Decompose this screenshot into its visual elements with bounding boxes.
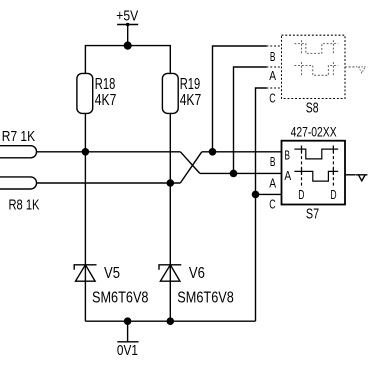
node S8-A junction (230, 170, 238, 178)
wire S8 pin A dashed stub (267, 66, 282, 68)
resistor R19 (162, 73, 201, 113)
svg-text:S7: S7 (306, 207, 319, 223)
wire node down to V5 and rail (84, 152, 86, 321)
wire lower line to S7 pin A (200, 172, 282, 174)
S7 labels (269, 148, 336, 223)
wire S8 pin B dashed stub (267, 45, 282, 47)
zener diode V5 (74, 265, 148, 307)
svg-text:427-02XX: 427-02XX (291, 124, 337, 140)
connector S8 (dashed) (282, 35, 368, 98)
S7 internal waveform B (294, 149, 338, 159)
wire crossover diagonal R7 to lower (180, 152, 199, 174)
svg-text:A: A (269, 68, 276, 83)
wire S8 pin C dashed stub (267, 87, 282, 89)
svg-text:R8 1K: R8 1K (9, 197, 40, 214)
svg-text:D: D (330, 187, 336, 202)
S7 internal detent dashed lines (301, 146, 303, 189)
svg-text:S8: S8 (306, 100, 319, 116)
node 0V1 tap (124, 317, 132, 325)
wire +5V tap (127, 25, 129, 46)
S8 detent marks (302, 40, 334, 76)
S7 internal waveform A (294, 171, 338, 181)
svg-text:A: A (269, 176, 276, 191)
svg-text:4K7: 4K7 (95, 92, 117, 109)
svg-text:V6: V6 (189, 265, 205, 282)
node R18/R7/V5 (82, 148, 90, 156)
node S8-C / S7-C junction (252, 191, 260, 199)
resistor R8 (0, 177, 40, 214)
svg-text:R7 1K: R7 1K (2, 128, 35, 145)
svg-text:SM6T6V8: SM6T6V8 (92, 290, 149, 307)
connector S7 box (282, 141, 346, 205)
svg-text:A: A (284, 168, 291, 183)
wire C net down to 0V rail (255, 194, 257, 321)
svg-text:0V1: 0V1 (117, 342, 138, 359)
S7 detent tick marks (302, 146, 334, 175)
svg-text:+5V: +5V (116, 7, 138, 24)
svg-text:B: B (284, 148, 290, 163)
wire S8 pin B (213, 46, 267, 152)
svg-text:C: C (269, 90, 275, 105)
svg-text:4K7: 4K7 (180, 92, 202, 109)
wire S7 common stub (345, 174, 356, 176)
resistor R7 (0, 128, 37, 158)
wire crossover diagonal R8 to upper (180, 152, 202, 183)
0V1 rail symbol (117, 321, 139, 359)
svg-text:V5: V5 (104, 265, 120, 282)
wire S8 pin C (256, 88, 267, 194)
node V6 rail junction (167, 317, 175, 325)
zener diode V6 (159, 265, 234, 307)
wire S8 pin A (234, 67, 267, 173)
svg-text:R19: R19 (180, 76, 201, 93)
S8 internal waveform A (294, 66, 338, 76)
S8 internal waveform B (294, 40, 338, 76)
wire R18 bottom to node (84, 113, 86, 151)
wire upper line to S7 pin B (202, 151, 282, 153)
wire S8 common stub (345, 66, 356, 68)
svg-text:C: C (269, 196, 275, 211)
node +5V rail junction (124, 42, 132, 50)
wire S7 pin C (256, 193, 282, 195)
svg-text:B: B (270, 154, 276, 169)
resistor R18 (77, 73, 116, 113)
svg-text:D: D (298, 187, 304, 202)
svg-text:B: B (270, 49, 276, 64)
svg-text:R18: R18 (95, 76, 116, 93)
wire top rail (85, 46, 170, 74)
S8 common V symbol (356, 67, 367, 73)
node S8-B junction (209, 148, 217, 156)
S8 pin labels (269, 49, 318, 116)
wire R19 bottom to node (169, 113, 171, 183)
wire R7 to crossover (37, 151, 181, 153)
svg-text:SM6T6V8: SM6T6V8 (177, 290, 234, 307)
node R19/R8/V6 (167, 179, 175, 187)
+5V power symbol (116, 7, 138, 26)
wire R8 to crossover (37, 182, 181, 184)
wire 0V bottom rail (85, 320, 255, 322)
wire node down to V6 and rail (169, 183, 171, 321)
S7 common V symbol (356, 175, 368, 181)
